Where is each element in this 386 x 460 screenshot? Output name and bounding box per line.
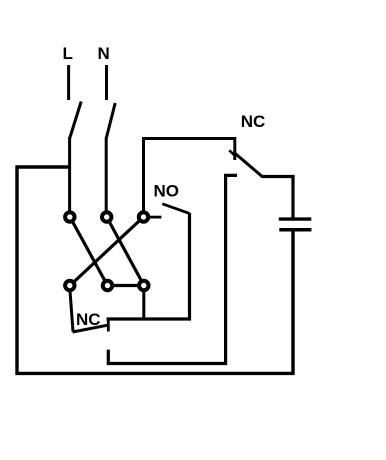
contact NC2 tick (107, 318, 110, 332)
wire diagonal T2 to T6 (107, 217, 144, 286)
wire NC2 contact stub to NC1 contact stub (108, 175, 237, 363)
wire terminal T4 to NC2 pivot (70, 288, 73, 332)
terminal T6 (139, 281, 148, 290)
capacitor C1 bottom plate (279, 228, 311, 232)
wire terminal T3 up and across to NC1 (144, 139, 235, 218)
wire L to terminal T1 (68, 137, 71, 217)
wire left branch and bottom rail to capacitor (17, 167, 293, 373)
contact NC2 blade (73, 325, 110, 332)
wire terminal T6 down to rail (142, 290, 145, 319)
wire NC1 to capacitor (262, 177, 293, 220)
capacitor C1 top plate (279, 217, 312, 220)
wire diagonal T1 to T5 (70, 217, 108, 286)
contact NC1 blade (234, 153, 263, 177)
switch SW-N blade (106, 103, 115, 139)
contact NC1 tick (229, 150, 235, 156)
contact NO tick (150, 216, 161, 219)
terminal T4 (65, 281, 74, 290)
wire link T5 to T6 (108, 284, 145, 287)
switch SW-N fixed lead (105, 65, 108, 100)
wire N to terminal T2 (105, 137, 108, 217)
switch SW-L blade (70, 102, 82, 139)
wire NO down to NC2 rail (107, 213, 190, 319)
contact NO blade (162, 204, 189, 214)
svg-text:NC: NC (241, 112, 266, 131)
terminal T5 (103, 281, 112, 290)
terminal T3 (139, 212, 148, 221)
terminal T2 (102, 212, 111, 221)
wire diagonal T3 to T4 (70, 217, 143, 286)
svg-text:NO: NO (154, 181, 180, 200)
terminal T1 (65, 212, 74, 221)
svg-text:N: N (98, 44, 110, 63)
svg-text:L: L (63, 44, 73, 63)
switch SW-L fixed lead (67, 65, 70, 100)
